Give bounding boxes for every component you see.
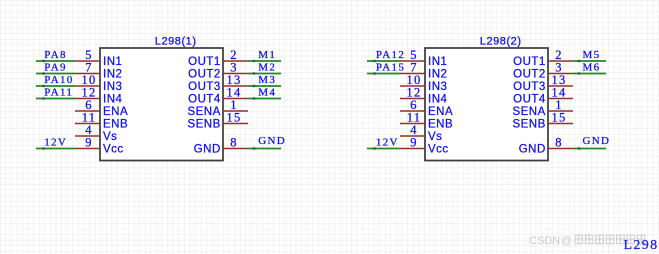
junction dot on net PA15 wire: [373, 72, 375, 74]
pin 14 (OUT4) of U2: [513, 86, 573, 106]
wire net M6 (right of U2): [573, 73, 606, 75]
watermark @你特别特别让 (CJK approximated): [0, 0, 1, 1]
svg-text:ENB: ENB: [103, 119, 128, 131]
svg-text:15: 15: [227, 111, 242, 125]
svg-text:PA11: PA11: [44, 87, 73, 99]
pin 10 (IN3) of U2: [400, 73, 447, 93]
svg-text:OUT4: OUT4: [188, 94, 221, 106]
pin 6 (ENA) of U1: [75, 98, 128, 118]
pin 13 (OUT3) of U2: [513, 73, 573, 93]
pin 1 (SENA) of U2: [512, 98, 573, 118]
svg-text:9: 9: [410, 136, 417, 150]
wire net M2 (right of U1): [248, 73, 281, 75]
pin 8 (GND) of U2: [519, 136, 573, 156]
wire net M5 (right of U2): [573, 60, 606, 62]
wire net PA8 (left of U1): [36, 60, 75, 62]
junction dot on net M4 wire: [253, 97, 255, 99]
pin 2 (OUT1) of U1: [188, 48, 248, 68]
junction dot on net PA11 wire: [42, 97, 44, 99]
svg-text:IN4: IN4: [103, 94, 123, 106]
pin 15 (SENB) of U2: [512, 111, 573, 131]
svg-text:OUT4: OUT4: [513, 94, 546, 106]
svg-text:9: 9: [85, 136, 92, 150]
junction dot on net M5 wire: [578, 60, 580, 62]
IC U2 L298(2) body: [425, 48, 548, 161]
pin 7 (IN2) of U2: [400, 61, 447, 81]
svg-text:GND: GND: [519, 144, 546, 156]
svg-text:Vcc: Vcc: [428, 144, 449, 156]
wire net 12V (left of U1): [36, 148, 75, 150]
pin 11 (ENB) of U2: [400, 111, 453, 131]
IC U1 L298(1) body: [100, 48, 223, 161]
junction dot on net M6 wire: [578, 72, 580, 74]
junction dot on net 12V wire: [42, 147, 44, 149]
wire net PA9 (left of U1): [36, 73, 75, 75]
junction dot on net GND wire: [253, 147, 255, 149]
svg-text:12V: 12V: [44, 137, 67, 149]
svg-text:OUT3: OUT3: [188, 81, 221, 93]
svg-text:PA12: PA12: [376, 49, 405, 61]
pin 9 (Vcc) of U1: [75, 136, 124, 156]
svg-text:OUT2: OUT2: [188, 69, 221, 81]
svg-text:M3: M3: [258, 74, 276, 86]
pin 3 (OUT2) of U2: [513, 61, 573, 81]
svg-text:OUT1: OUT1: [188, 56, 221, 68]
svg-text:M2: M2: [258, 62, 276, 74]
pin 3 (OUT2) of U1: [188, 61, 248, 81]
svg-text:IN2: IN2: [428, 69, 447, 81]
svg-text:Vcc: Vcc: [103, 144, 124, 156]
pin 1 (SENA) of U1: [187, 98, 248, 118]
svg-text:ENA: ENA: [428, 106, 453, 118]
svg-text:Vs: Vs: [103, 131, 117, 143]
svg-text:15: 15: [552, 111, 567, 125]
svg-text:L298(1): L298(1): [155, 36, 197, 48]
svg-text:IN2: IN2: [103, 69, 122, 81]
svg-text:OUT1: OUT1: [513, 56, 546, 68]
svg-text:GND: GND: [583, 135, 611, 147]
wire net GND (right of U1): [248, 148, 281, 150]
svg-text:L298: L298: [624, 238, 659, 253]
svg-text:M5: M5: [583, 49, 601, 61]
pin 5 (IN1) of U2: [400, 48, 447, 68]
svg-text:IN4: IN4: [428, 94, 448, 106]
svg-text:IN1: IN1: [428, 56, 447, 68]
svg-text:SENA: SENA: [512, 106, 545, 118]
svg-text:PA8: PA8: [44, 49, 66, 61]
svg-text:M4: M4: [258, 87, 276, 99]
junction dot on net M3 wire: [253, 85, 255, 87]
pin 14 (OUT4) of U1: [188, 86, 248, 106]
wire net M4 (right of U1): [248, 98, 281, 100]
wire net M1 (right of U1): [248, 60, 281, 62]
pin 11 (ENB) of U1: [75, 111, 128, 131]
pin 5 (IN1) of U1: [75, 48, 122, 68]
svg-text:L298(2): L298(2): [480, 36, 522, 48]
svg-text:IN3: IN3: [428, 81, 447, 93]
pin 12 (IN4) of U1: [75, 86, 123, 106]
svg-text:SENB: SENB: [512, 119, 545, 131]
pin 6 (ENA) of U2: [400, 98, 453, 118]
pin 12 (IN4) of U2: [400, 86, 448, 106]
pin 7 (IN2) of U1: [75, 61, 122, 81]
pin 8 (GND) of U1: [194, 136, 248, 156]
wire net GND (right of U2): [573, 148, 606, 150]
svg-text:8: 8: [230, 136, 237, 150]
pin 10 (IN3) of U1: [75, 73, 122, 93]
wire net PA11 (left of U1): [36, 98, 75, 100]
junction dot on net M1 wire: [253, 60, 255, 62]
pin 13 (OUT3) of U1: [188, 73, 248, 93]
pin 9 (Vcc) of U2: [400, 136, 449, 156]
svg-text:OUT2: OUT2: [513, 69, 546, 81]
svg-text:@: @: [561, 235, 572, 247]
wire net PA15 (left of U2): [367, 73, 400, 75]
svg-text:GND: GND: [194, 144, 221, 156]
junction dot on net PA8 wire: [42, 60, 44, 62]
svg-text:ENA: ENA: [103, 106, 128, 118]
svg-text:IN3: IN3: [103, 81, 122, 93]
svg-text:SENA: SENA: [187, 106, 220, 118]
junction dot on net PA12 wire: [373, 60, 375, 62]
junction dot on net GND wire: [578, 147, 580, 149]
junction dot on net M2 wire: [253, 72, 255, 74]
wire net 12V (left of U2): [367, 148, 400, 150]
svg-text:SENB: SENB: [187, 119, 220, 131]
svg-text:IN1: IN1: [103, 56, 122, 68]
pin 2 (OUT1) of U2: [513, 48, 573, 68]
svg-text:OUT3: OUT3: [513, 81, 546, 93]
pin 4 (Vs) of U2: [400, 123, 442, 143]
pin 15 (SENB) of U1: [187, 111, 248, 131]
wire net M3 (right of U1): [248, 85, 281, 87]
svg-text:PA9: PA9: [44, 62, 66, 74]
junction dot on net PA10 wire: [42, 85, 44, 87]
svg-text:Vs: Vs: [428, 131, 442, 143]
svg-text:PA10: PA10: [44, 74, 73, 86]
svg-text:M6: M6: [583, 62, 601, 74]
svg-text:GND: GND: [258, 135, 286, 147]
svg-text:8: 8: [555, 136, 562, 150]
svg-text:ENB: ENB: [428, 119, 453, 131]
svg-text:PA15: PA15: [376, 62, 405, 74]
junction dot on net 12V wire: [373, 147, 375, 149]
svg-text:12V: 12V: [376, 137, 399, 149]
wire net PA12 (left of U2): [367, 60, 400, 62]
wire net PA10 (left of U1): [36, 85, 75, 87]
junction dot on net PA9 wire: [42, 72, 44, 74]
svg-text:M1: M1: [258, 49, 276, 61]
svg-text:CSDN: CSDN: [529, 235, 560, 247]
pin 4 (Vs) of U1: [75, 123, 117, 143]
